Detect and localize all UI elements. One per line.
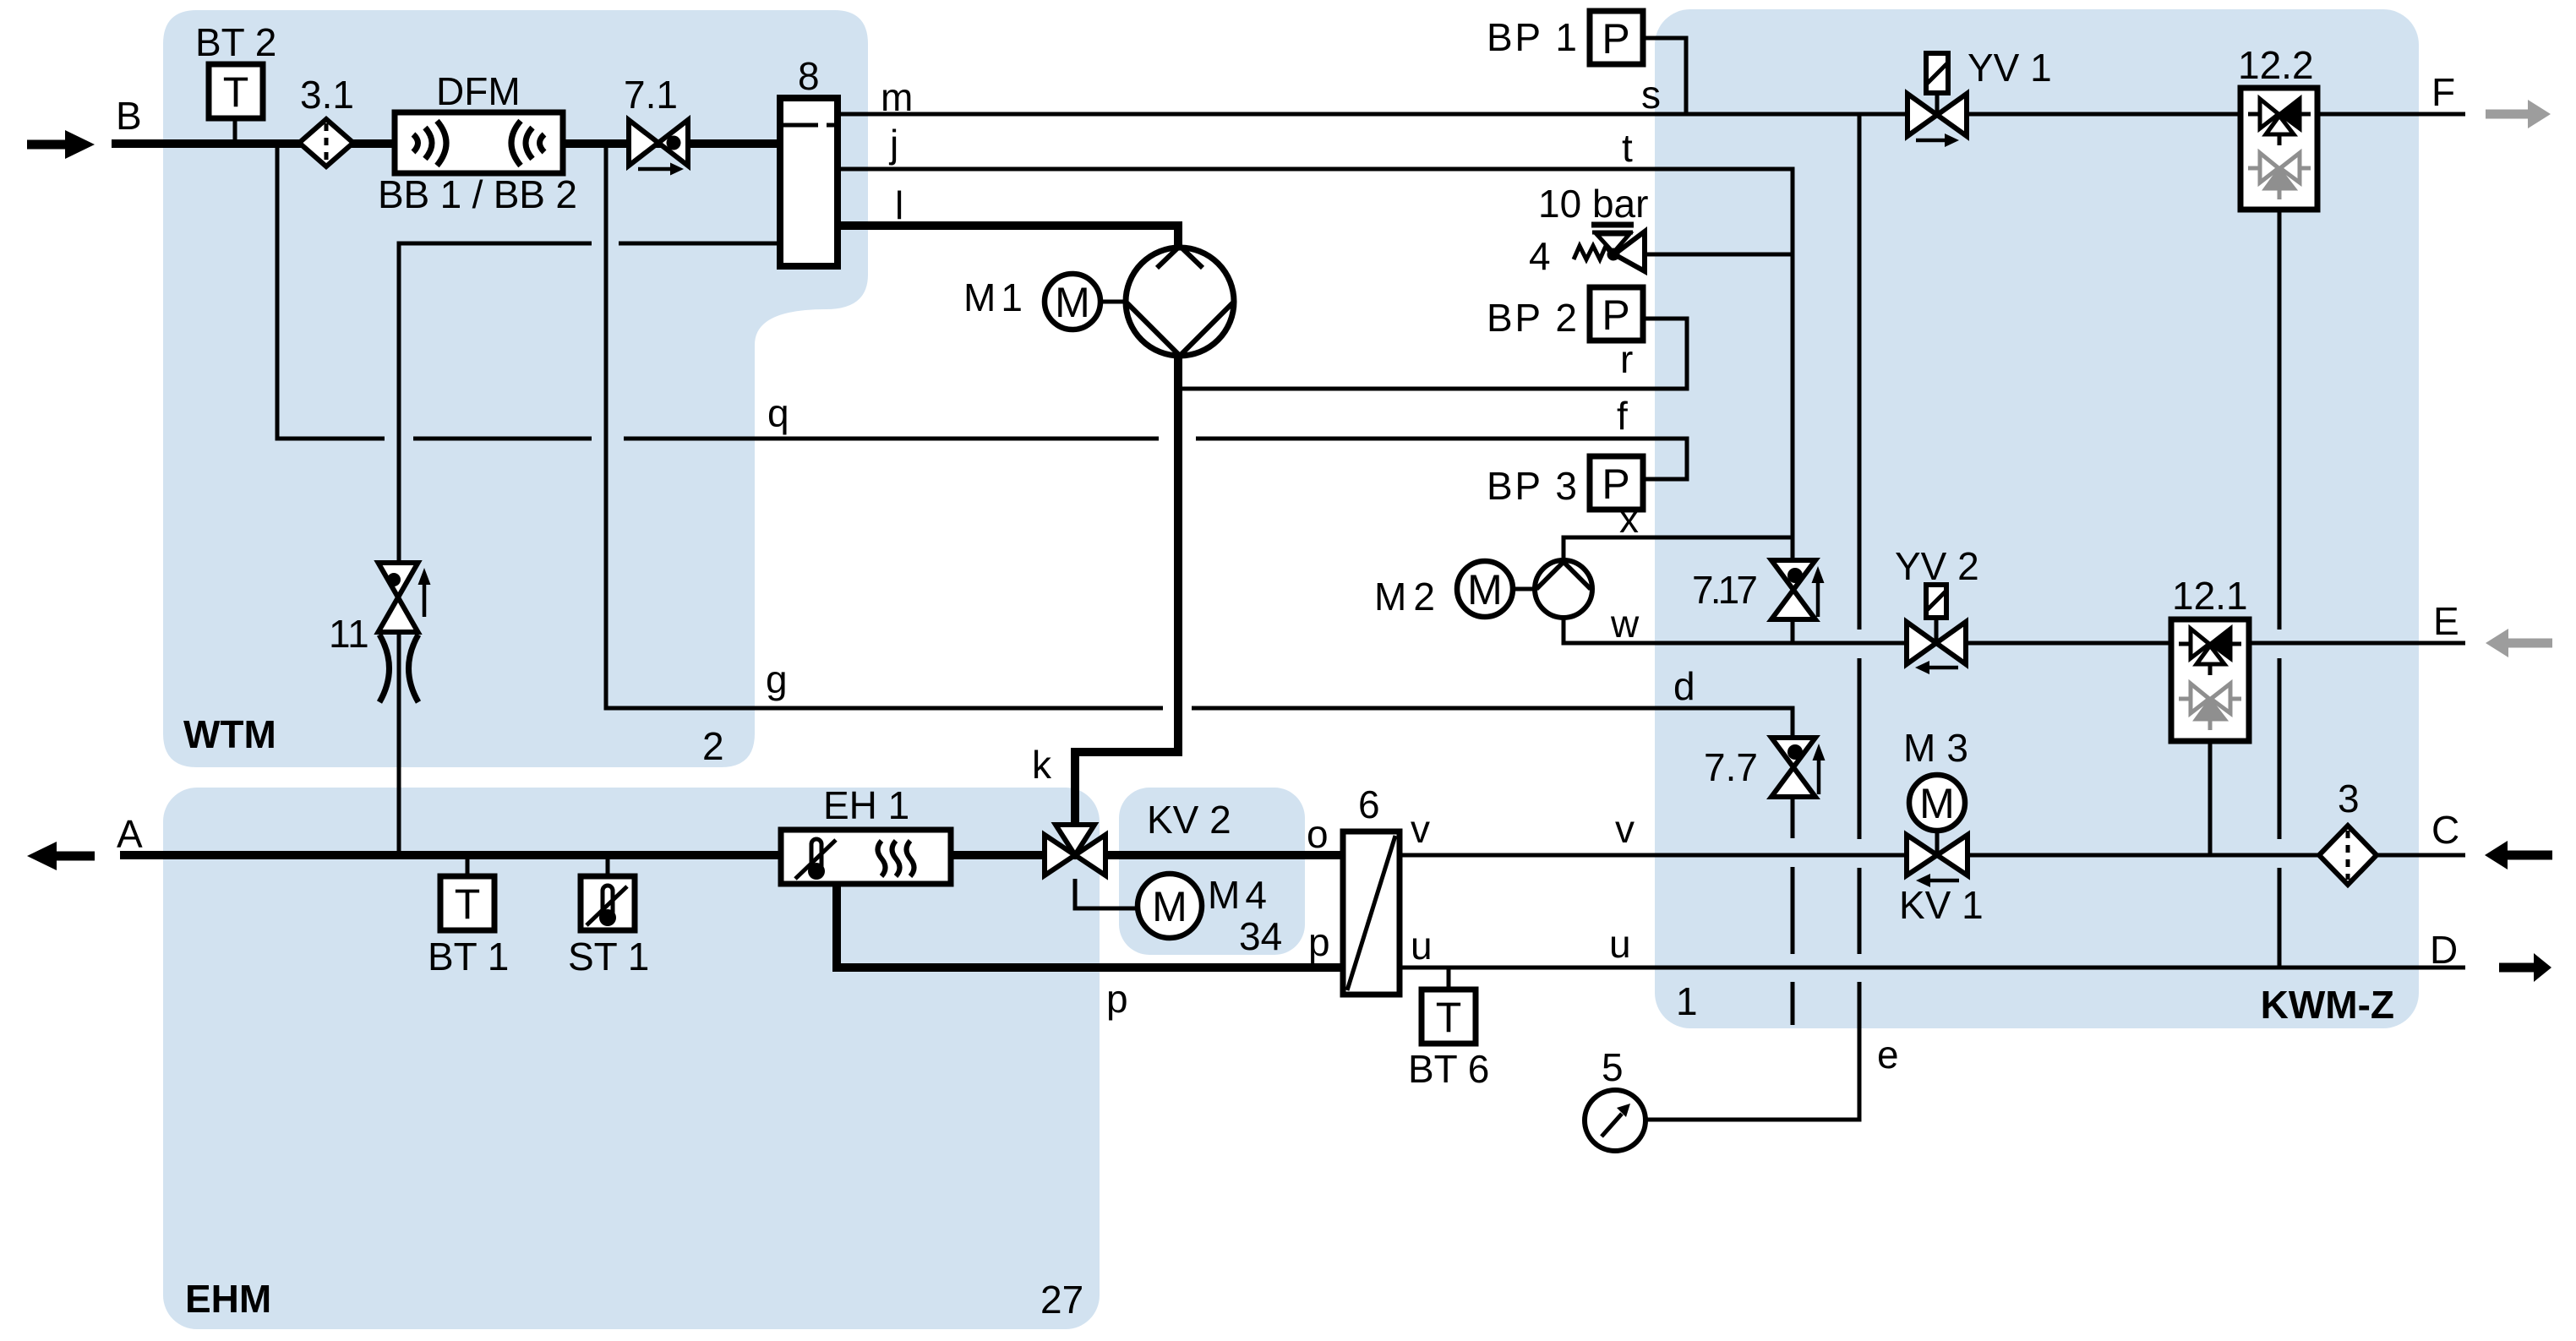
KWM-Z module background region [1655,9,2419,1028]
pump M2 [1535,560,1592,618]
svg-text:BB 1 / BB 2: BB 1 / BB 2 [378,172,577,216]
svg-text:WTM: WTM [183,712,276,756]
svg-text:BT 1: BT 1 [428,935,509,978]
wire r line from pump M1 to BP2 [1178,319,1687,389]
svg-text:KWM-Z: KWM-Z [2261,983,2394,1027]
wire m/s line from vessel 8 to F outlet [838,112,2465,117]
svg-text:KV 2: KV 2 [1147,798,1231,842]
svg-text:k: k [1032,743,1052,787]
wire q/f line to BP3 [413,439,1687,479]
svg-text:d: d [1673,664,1695,708]
valve 7.7 [1771,738,1815,797]
wire l line from vessel 8 to pump M1 (thick) [838,226,1178,248]
valve 7.1 [629,120,688,166]
svg-text:T: T [455,880,481,928]
temperature sensor BT6 [1422,989,1476,1044]
svg-text:6: 6 [1358,782,1380,826]
svg-text:1: 1 [1676,979,1698,1023]
svg-text:4: 4 [1529,234,1551,278]
wire BP1 connector to m line [1643,38,1686,114]
svg-text:YV 2: YV 2 [1895,544,1979,588]
svg-text:M 4: M 4 [1208,873,1267,917]
wire ST1 sensor stem [606,855,610,876]
svg-text:t: t [1622,126,1633,170]
svg-text:e: e [1877,1033,1899,1077]
svg-text:M 2: M 2 [1374,575,1435,619]
svg-text:m: m [881,75,913,119]
terminal arrow A outlet [27,842,95,870]
svg-text:8: 8 [798,54,820,98]
svg-text:w: w [1610,602,1640,646]
temperature sensor BT1 [440,876,494,930]
wire e line from m line down to gauge 5 [1645,114,1859,1120]
terminal arrow D outlet [2499,953,2551,982]
terminal arrow B inlet [27,130,95,159]
svg-text:KV 1: KV 1 [1899,883,1984,927]
pump M1 [1126,248,1234,356]
wire k line from pump M1 down to valve KV2 (thick) [1075,356,1178,826]
wire x line from pump M2 top to valve 7.17 line [1564,537,1793,560]
EHM module background region [163,788,1100,1329]
svg-text:l: l [895,183,903,227]
svg-text:o: o [1307,812,1329,856]
check valve block 12.1 [2171,619,2249,741]
wire w/E line from pump M2 bottom to E outlet [1564,618,2465,643]
solenoid valve YV2 [1935,618,1939,643]
valve 7.17 [1771,560,1815,619]
svg-text:E: E [2433,599,2459,643]
svg-text:12.1: 12.1 [2172,574,2248,618]
svg-text:5: 5 [1602,1045,1624,1089]
svg-text:27: 27 [1040,1278,1083,1322]
wire motor M1 shaft [1100,300,1126,304]
svg-text:j: j [888,122,898,166]
electric heater EH1 [781,830,951,884]
motor M1 circle [1045,274,1100,330]
svg-text:T: T [1436,994,1462,1041]
svg-text:M 3: M 3 [1903,726,1968,770]
svg-text:M: M [1152,883,1187,930]
svg-text:T: T [223,68,249,116]
svg-text:p: p [1308,920,1330,964]
temperature limiter ST1 [581,876,635,930]
svg-text:EHM: EHM [185,1277,271,1321]
svg-text:YV 1: YV 1 [1967,46,2052,90]
svg-text:EH 1: EH 1 [823,783,909,827]
svg-text:u: u [1609,922,1631,966]
pressure sensor BP1 [1590,11,1643,64]
svg-text:v: v [1615,807,1635,851]
svg-text:P: P [1602,292,1629,339]
3-way valve KV2 [1045,825,1105,875]
filter 3 [2319,826,2377,885]
wire vessel 8 lower left connection line [399,243,780,563]
svg-text:P: P [1602,15,1629,63]
wire v/C line from vessel 6 to C inlet [1400,853,2465,858]
svg-text:2: 2 [702,724,724,768]
svg-text:B: B [116,94,142,138]
svg-text:s: s [1641,73,1661,117]
wire j/t line from vessel 8 to corner [838,169,1793,561]
terminal arrow E inlet (grey) [2486,629,2552,657]
wire below valve 7.7 with module-boundary gaps [1791,797,1795,1025]
svg-text:F: F [2431,70,2455,114]
valve 11 with orifice [379,563,418,632]
KV2 module background region [1119,788,1305,955]
wire motor M3 shaft [1935,831,1940,853]
motor M2 circle [1457,561,1513,617]
orifice symbol below valve 11 [379,635,418,702]
motor M4 circle [1138,874,1202,938]
wire BT2 sensor stem [233,116,237,144]
shut-off valve KV1 [1907,835,1967,875]
svg-text:A: A [117,812,143,856]
svg-text:BP 2: BP 2 [1487,296,1577,340]
svg-text:7.17: 7.17 [1692,568,1758,612]
svg-text:M: M [1467,566,1503,613]
wire A return line through EH1 to vessel 6 (thick) [120,851,1343,859]
svg-text:x: x [1619,497,1639,541]
svg-text:M 1: M 1 [963,275,1023,319]
svg-text:C: C [2431,808,2459,852]
wire KV2 valve to motor M4 [1075,879,1138,908]
svg-text:ST 1: ST 1 [568,935,649,978]
wire branch from valve 11 line corner down to A line [397,632,401,855]
terminal arrow C inlet [2485,841,2552,869]
svg-text:q: q [767,391,789,435]
svg-text:34: 34 [1239,914,1282,958]
filter 3.1 [299,119,353,166]
wire branch from B line down at x=328 [277,144,385,439]
svg-text:u: u [1411,924,1433,968]
temperature sensor BT2 [209,64,263,118]
wire relief valve 4 outlet line [1645,253,1793,257]
flow meter DFM (BB 1 / BB 2) [395,112,563,173]
svg-text:r: r [1620,337,1633,381]
svg-text:BT 2: BT 2 [195,20,276,64]
svg-text:DFM: DFM [436,69,521,113]
svg-text:BT 6: BT 6 [1408,1047,1489,1091]
wire motor M2 shaft [1513,587,1535,591]
wire BT1 sensor stem [466,855,470,876]
svg-text:BP 3: BP 3 [1487,464,1577,508]
terminal arrow F outlet (grey) [2486,100,2551,128]
svg-text:7.7: 7.7 [1704,745,1758,789]
wire 12.1 block stem to C line [2208,741,2213,855]
svg-text:12.2: 12.2 [2238,43,2314,87]
solenoid valve YV1 [1935,93,1940,115]
svg-text:g: g [766,657,788,701]
wire p line from EH1 bottom to vessel 6 (thick) [837,884,1343,968]
WTM module background region [163,10,868,767]
svg-text:M: M [1055,279,1090,326]
svg-text:v: v [1411,807,1430,851]
vessel 8 (expansion tank) [780,98,838,266]
safety valve 4 (10 bar) [1574,225,1645,271]
pressure gauge 5 [1585,1090,1645,1151]
svg-text:D: D [2430,928,2458,972]
svg-text:M: M [1919,780,1955,827]
wire BT6 sensor stem [1447,968,1451,989]
vessel 6 (heat exchanger/separator) [1343,831,1400,995]
svg-text:3.1: 3.1 [300,73,354,117]
wire branch from B line down at x=717 and g/d line to valve 7.7 [606,144,1793,738]
svg-text:7.1: 7.1 [624,73,678,117]
svg-text:p: p [1106,977,1128,1021]
pressure sensor BP2 [1590,287,1643,341]
svg-text:11: 11 [329,612,369,656]
wire B supply line (thick) [112,139,780,148]
wire u/D line from vessel 6 to D outlet [1400,966,2465,970]
check valve block 12.2 [2240,88,2317,210]
svg-text:f: f [1617,394,1628,438]
svg-text:3: 3 [2338,777,2360,820]
svg-text:BP 1: BP 1 [1487,15,1577,59]
wire 12.2 block stem down to D line [2278,210,2282,968]
motor M3 circle [1909,775,1965,831]
wire vertical from t corner through valve 7.17 to E line [1791,619,1795,643]
svg-text:10 bar: 10 bar [1538,182,1648,226]
pressure sensor BP3 [1590,456,1643,510]
